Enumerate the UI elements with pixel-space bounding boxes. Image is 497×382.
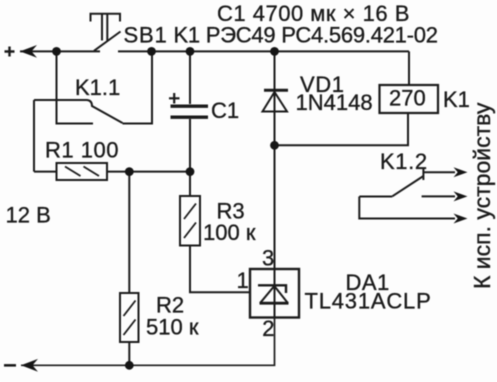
TL431 DA1 package box	[250, 269, 299, 318]
capacitor C1: negative plate	[171, 115, 209, 118]
arrowhead: K1.2 lower output	[454, 214, 468, 224]
capacitor C1: bottom lead down through node to R3 top	[189, 119, 191, 196]
plus supply terminal symbol	[5, 47, 15, 57]
TL431 DA1: internal cathode bar with reference hook	[258, 285, 286, 293]
junction: top rail / C1 top lead	[186, 47, 195, 56]
svg-text:2: 2	[262, 316, 274, 341]
svg-text:С1: С1	[211, 98, 239, 123]
contact K1.2: pole wire	[359, 196, 392, 198]
contact K1.2: pole branch wire to lower output arrow	[359, 197, 455, 219]
wire: R2 bottom lead to minus rail	[128, 342, 130, 365]
junction: node line / C1-R3 lead	[186, 167, 195, 176]
pushbutton SB1: actuator cap	[91, 14, 121, 22]
wire: VD1 branch from top rail down to junction and on to DA1 pin 3	[274, 51, 276, 268]
wire top rail: + arrow to SB1 left terminal	[20, 50, 100, 52]
contact K1.2: wire from upper fixed contact to upper output arrow	[423, 171, 455, 173]
resistor R3 body	[180, 196, 200, 246]
svg-text:К исп. устройству: К исп. устройству	[469, 102, 495, 289]
capacitor C1: positive plate	[171, 104, 209, 107]
wire bottom minus rail with riser to DA1 pin 2	[21, 318, 275, 366]
junction: node line / R2 top lead	[125, 167, 134, 176]
svg-text:K1: K1	[443, 87, 470, 112]
wire node line: R1 right lead to C1 bottom lead (net R1/R2/C1/R3)	[107, 171, 190, 173]
junction: VD1 anode / coil return / DA1 pin 3	[270, 141, 279, 150]
wire: relay coil K1 bottom lead to VD1 junction	[275, 113, 409, 145]
junction: minus rail / R2 bottom lead	[125, 361, 134, 370]
resistor R3 power-rating slashes	[184, 204, 196, 239]
resistor R2 power-rating slashes	[124, 301, 136, 336]
svg-text:12 В: 12 В	[6, 203, 51, 228]
pushbutton SB1: actuator stem (double line)	[102, 14, 107, 41]
wire: R3 bottom lead to DA1 pin 1	[190, 246, 250, 293]
svg-text:270: 270	[389, 86, 426, 111]
junction: top rail / VD1 branch	[270, 47, 279, 56]
TL431 DA1: internal anode triangle	[260, 286, 288, 303]
svg-text:510 к: 510 к	[146, 315, 199, 340]
svg-text:K1.2: K1.2	[380, 149, 428, 174]
contact K1.2: upper fixed contact tick	[422, 168, 424, 181]
contact K1.2: wire middle output arrow	[422, 195, 455, 197]
diode VD1 anode triangle	[263, 92, 288, 112]
junction: top rail / K1.1 right branch at SB1	[147, 47, 156, 56]
pushbutton SB1: movable contact arm	[94, 32, 121, 51]
TL431 DA1: internal anode bar	[260, 302, 289, 305]
svg-text:K1.1: K1.1	[75, 75, 120, 100]
wire: K1.1 upper terminal down to R1 left lead	[33, 100, 35, 172]
svg-text:TL431ACLP: TL431ACLP	[305, 289, 432, 314]
capacitor C1 polarity plus mark	[169, 93, 180, 104]
wire: R2 top lead from node line	[128, 172, 130, 293]
resistor R1 body	[57, 163, 108, 180]
contact K1.2: movable arm	[392, 176, 423, 196]
svg-text:SB1: SB1	[124, 23, 168, 48]
relay coil K1 box	[380, 85, 439, 113]
arrowhead: plus input arrow	[20, 45, 37, 58]
svg-text:R1 100: R1 100	[45, 138, 119, 163]
capacitor C1: top lead from top rail	[189, 51, 191, 104]
svg-text:100 к: 100 к	[203, 220, 256, 245]
svg-text:1: 1	[237, 268, 249, 293]
wire top rail: SB1 right terminal to relay coil drop	[118, 50, 409, 52]
minus supply terminal symbol	[4, 364, 16, 367]
resistor R2 body	[120, 293, 139, 342]
TL431 DA1: internal cathode-anode axis line	[274, 269, 276, 318]
resistor R1 power-rating slashes	[65, 167, 99, 177]
contact K1.1: wire from + rail node down to lower fixed contact	[57, 51, 94, 123]
contact K1.1: upper terminal wire and movable arm with hook	[34, 100, 123, 123]
junction: top rail / K1.1 left branch	[52, 47, 61, 56]
svg-text:3: 3	[262, 246, 274, 271]
svg-text:K1 РЭС49 РС4.569.421-02: K1 РЭС49 РС4.569.421-02	[174, 23, 438, 48]
arrowhead: K1.2 middle output	[454, 191, 468, 201]
svg-text:1N4148: 1N4148	[296, 90, 373, 115]
arrowhead: minus input arrow	[21, 359, 38, 372]
wire: R1 left lead	[34, 171, 57, 173]
arrowhead: K1.2 upper output	[454, 167, 468, 177]
diode VD1 cathode bar	[264, 89, 288, 92]
wire: drop from top rail to relay coil K1	[408, 51, 410, 85]
contact K1.1: right terminal wire up to SB1 right node	[123, 51, 153, 123]
